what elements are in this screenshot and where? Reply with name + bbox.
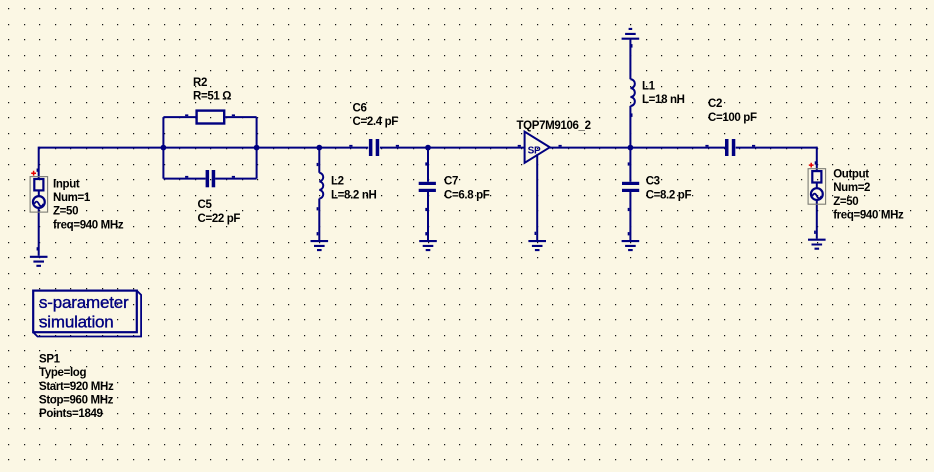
svg-text:C2: C2	[708, 98, 722, 110]
svg-text:Input: Input	[53, 178, 80, 190]
svg-text:C=100 pF: C=100 pF	[708, 112, 757, 124]
svg-text:freq=940 MHz: freq=940 MHz	[53, 219, 124, 231]
svg-text:R2: R2	[193, 77, 207, 89]
svg-text:Z=50: Z=50	[833, 196, 858, 208]
svg-text:Output: Output	[833, 169, 869, 181]
svg-text:SP1: SP1	[39, 353, 61, 365]
svg-text:C=22 pF: C=22 pF	[198, 213, 241, 225]
svg-text:C5: C5	[198, 199, 213, 211]
svg-text:TQP7M9106_2: TQP7M9106_2	[517, 120, 591, 132]
svg-text:Num=1: Num=1	[53, 192, 91, 204]
svg-text:s-parameter: s-parameter	[39, 293, 129, 312]
svg-text:Z=50: Z=50	[53, 206, 78, 218]
svg-text:L1: L1	[642, 80, 656, 92]
svg-text:Points=1849: Points=1849	[39, 408, 103, 420]
svg-text:C=8.2 pF: C=8.2 pF	[646, 189, 692, 201]
svg-text:Num=2: Num=2	[833, 182, 870, 194]
svg-text:R=51 Ω: R=51 Ω	[193, 91, 231, 103]
svg-text:C3: C3	[646, 176, 660, 188]
svg-text:L2: L2	[331, 176, 344, 188]
svg-text:L=18 nH: L=18 nH	[642, 94, 685, 106]
svg-text:freq=940 MHz: freq=940 MHz	[833, 209, 904, 221]
svg-text:C6: C6	[353, 102, 367, 114]
svg-text:Start=920 MHz: Start=920 MHz	[39, 381, 114, 393]
svg-text:simulation: simulation	[39, 313, 114, 332]
svg-text:C=6.8 pF: C=6.8 pF	[444, 189, 490, 201]
svg-text:L=8.2 nH: L=8.2 nH	[331, 189, 376, 201]
svg-text:SP: SP	[528, 145, 541, 156]
svg-text:C7: C7	[444, 176, 458, 188]
svg-text:C=2.4 pF: C=2.4 pF	[353, 116, 399, 128]
svg-text:Type=log: Type=log	[39, 367, 86, 379]
svg-text:Stop=960 MHz: Stop=960 MHz	[39, 395, 114, 407]
